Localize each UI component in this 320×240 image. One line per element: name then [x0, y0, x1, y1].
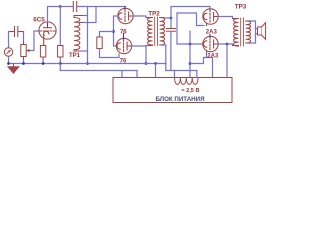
speaker LS1: [258, 23, 266, 40]
wire to Rk: [100, 32, 114, 38]
wire TP2 sec top down to C3: [170, 18, 172, 28]
wire B+ down to block: [226, 44, 228, 80]
triode U4 2A3 top: [203, 9, 218, 26]
wire Rk bottom: [100, 49, 120, 58]
wire: [8, 56, 10, 63]
svg-text:6С5: 6С5: [33, 17, 45, 24]
wire bus jog down: [59, 64, 61, 71]
resistor R3: [58, 46, 63, 61]
wire: [23, 32, 25, 43]
wire winding right end: [196, 71, 198, 78]
resistor R4 cathode 76: [97, 37, 102, 49]
wire top rail to C2: [60, 6, 72, 8]
wire cathode return bottom 2A3: [190, 58, 213, 80]
wire pot bottom: [23, 60, 25, 64]
triode U5 2A3 bottom: [203, 35, 218, 54]
wire filament link: [176, 13, 178, 44]
wire TP1 top lead up: [84, 15, 88, 17]
capacitor C1: [10, 27, 24, 37]
wire long vertical right of TP1: [87, 7, 89, 64]
wire filament down: [189, 31, 191, 78]
node source gnd: [7, 62, 10, 65]
triode U1 6C5: [39, 22, 56, 46]
triode U2 76 top: [118, 7, 133, 24]
node R2 gnd: [42, 62, 45, 65]
wire TP1 tap up: [84, 7, 96, 23]
transformer TP2: [146, 17, 165, 46]
svg-text:ТР1: ТР1: [69, 53, 81, 59]
wire TP3 sec to speaker: [250, 21, 256, 43]
wire: [9, 32, 11, 48]
node R3 gnd: [59, 62, 62, 65]
node B+: [226, 43, 229, 46]
wire C3 bottom to bus2: [170, 32, 172, 71]
node pot gnd: [22, 62, 25, 65]
terminal dots in block: [121, 78, 124, 81]
wire anode 2A3 top to TP3: [218, 17, 232, 19]
node cathodes 76: [112, 30, 115, 33]
node TP1 bottom: [86, 62, 89, 65]
capacitor C3: [167, 29, 176, 32]
wire TP2 prim bottom to bus: [145, 46, 147, 64]
svg-text:2А3: 2А3: [207, 54, 219, 60]
filament winding 2.5V: [175, 78, 199, 85]
node TP2 prim bottom: [145, 62, 148, 65]
node filament: [189, 43, 192, 46]
bus2: [60, 70, 137, 72]
wire y13 to top 2A3 cathode: [177, 13, 204, 26]
node TP2 sec top: [170, 17, 173, 20]
ground bus: [9, 63, 167, 65]
wire anode 2A3 bottom to TP3: [218, 44, 232, 46]
svg-text:≈ 2,5 В: ≈ 2,5 В: [182, 88, 200, 94]
wire: [42, 60, 44, 64]
wire down to R3: [59, 7, 61, 46]
wire winding left end: [174, 71, 176, 78]
wire bus2 into block at 122: [121, 71, 123, 80]
svg-text:ТР2: ТР2: [148, 10, 160, 17]
wire bus2 into block at 137: [136, 71, 138, 80]
potentiometer R1: [21, 42, 30, 60]
node A: [59, 5, 62, 8]
wire anode 76 bottom to TP2: [132, 45, 146, 48]
wire bus1 into block: [155, 64, 157, 80]
wire speaker stubs: [256, 29, 258, 34]
transformer TP3: [233, 18, 251, 46]
triode U3 76 bottom: [116, 34, 131, 54]
svg-text:БЛОК ПИТАНИЯ: БЛОК ПИТАНИЯ: [155, 96, 205, 103]
wire anode 76 top to TP2: [133, 16, 146, 18]
transformer TP1 winding: [74, 16, 84, 52]
wire TP2 sec bottom down: [162, 45, 166, 71]
wire anode 6C5 to top rail: [48, 7, 62, 23]
ground: [8, 64, 20, 74]
wire cathode bottom 2A3: [206, 53, 208, 58]
svg-text:ТР3: ТР3: [235, 4, 247, 11]
node bus1 to block: [154, 62, 157, 65]
node filament lower: [189, 62, 192, 65]
bus2 right segment: [166, 70, 197, 72]
svg-text:2А3: 2А3: [206, 30, 218, 36]
source B1: [4, 48, 12, 56]
capacitor C2: [73, 2, 76, 12]
wire y44 to bottom 2A3: [177, 43, 203, 45]
wire TP2 sec top: [164, 17, 171, 19]
wire cathode 76 top: [114, 16, 119, 46]
wire TP1 bottom to bus: [82, 50, 88, 52]
wire up to top rail: [171, 7, 210, 19]
wire C2 to 76 grid: [77, 6, 125, 8]
power supply block: [113, 78, 232, 103]
resistor R2 cathode 6C5: [40, 46, 45, 61]
wire: [59, 60, 61, 64]
wire wiper to grid: [30, 31, 40, 51]
